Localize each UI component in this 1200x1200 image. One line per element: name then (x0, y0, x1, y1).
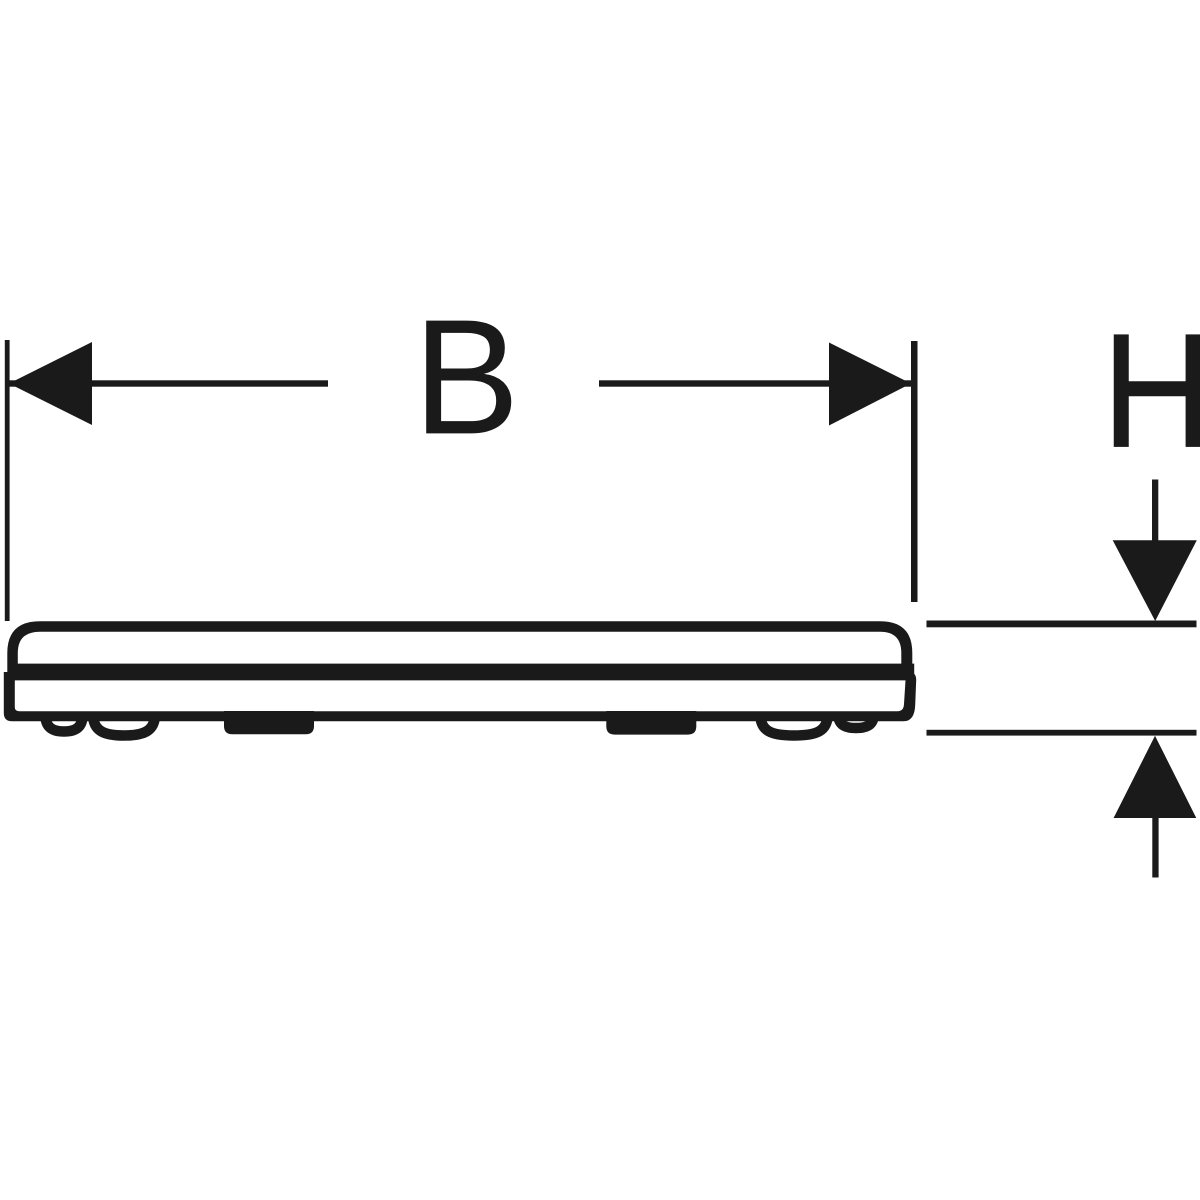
label H (right stroke, cut by page edge) (1186, 334, 1200, 447)
flat bumper left (224, 711, 314, 734)
arrowhead left (B dimension) (9, 342, 92, 425)
label H (left stroke) (1114, 334, 1129, 447)
reference line bottom (H dimension) (927, 730, 1197, 736)
reference line top (H dimension) (927, 621, 1197, 628)
dimension line B left segment (9, 380, 328, 386)
svg-text:B: B (413, 285, 520, 468)
extension line right (B dimension) (911, 341, 918, 602)
down arrowhead (H dimension) (1113, 540, 1197, 621)
flat bumper right (606, 711, 696, 735)
up arrowhead (H dimension) (1114, 736, 1197, 818)
right hinge bumper large arch (760, 714, 827, 736)
arrowhead right (B dimension) (829, 343, 911, 426)
down arrow stem (H dimension) (1152, 480, 1158, 543)
left hinge bumper small arch (45, 714, 82, 732)
extension line left (B dimension) (5, 340, 10, 621)
left hinge bumper large arch (93, 714, 155, 736)
label B (413, 285, 520, 468)
right hinge bumper small arch (838, 714, 873, 728)
up arrow stem (H dimension) (1152, 816, 1158, 878)
label H (crossbar) (1128, 381, 1186, 396)
seat ring outline (side view) (4, 672, 916, 721)
seat lid outline (top cover, side view) (7, 621, 914, 680)
dimension line B right segment (599, 380, 911, 386)
